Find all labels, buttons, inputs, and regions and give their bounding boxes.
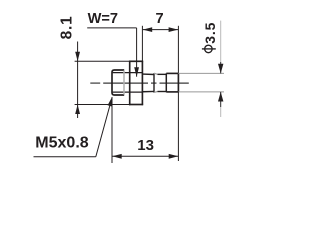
svg-text:13: 13: [137, 137, 154, 154]
svg-text:W=7: W=7: [88, 11, 118, 27]
svg-text:7: 7: [155, 11, 163, 27]
svg-text:8.1: 8.1: [59, 15, 76, 39]
svg-text:M5x0.8: M5x0.8: [35, 134, 88, 151]
svg-text:3.5: 3.5: [202, 22, 218, 44]
